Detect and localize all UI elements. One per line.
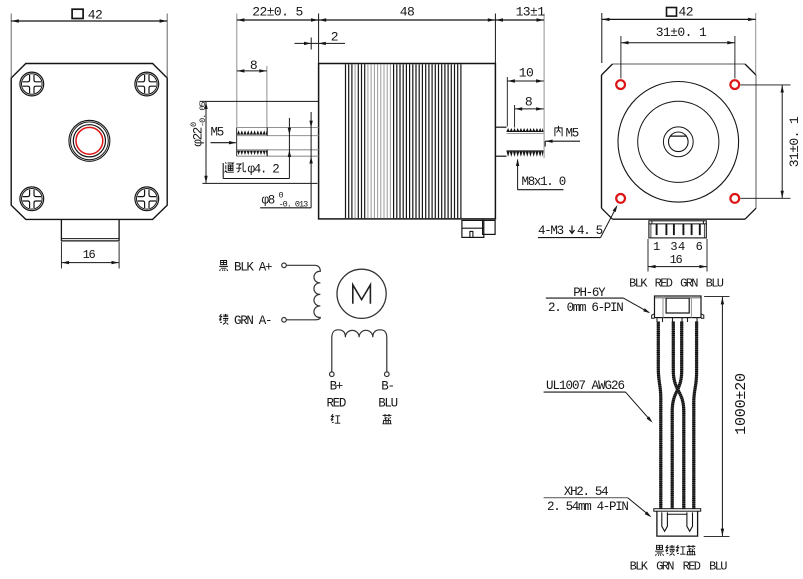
svg-text:BLU: BLU [378, 397, 397, 411]
PH-6Y connector housing [652, 296, 704, 318]
svg-text:BLU: BLU [709, 559, 727, 573]
label 内M5 with leader [545, 126, 580, 147]
motor body (side view) [319, 64, 496, 219]
dimension φ22 with tolerance [189, 101, 319, 183]
front shaft (side view) [237, 128, 319, 157]
M3 tapped hole top-left [616, 80, 625, 89]
svg-text:GRN A-: GRN A- [234, 314, 271, 328]
phase A wire and coil [286, 265, 320, 320]
svg-text:16: 16 [83, 248, 96, 262]
wire color labels (top) [629, 277, 724, 291]
dimension 48 [319, 4, 496, 63]
svg-text:10: 10 [519, 65, 533, 80]
svg-text:BLK: BLK [629, 277, 648, 291]
dimension 22±0.5 [237, 4, 319, 127]
svg-text:2. 54mm 4-PIN: 2. 54mm 4-PIN [547, 500, 628, 514]
label 通孔φ4.2 with leader [223, 118, 291, 179]
svg-text:RED: RED [326, 397, 345, 411]
phase B coil and wires [332, 330, 387, 372]
label BLK GRN RED BLU (bottom) [630, 559, 728, 573]
svg-text:RED: RED [655, 277, 673, 291]
M3 tapped hole bottom-right [730, 194, 739, 203]
screw hole bottom-left [20, 187, 44, 211]
svg-text:GRN: GRN [656, 559, 674, 573]
dimension square-42 (front view) [11, 7, 167, 77]
dimension 10 (rear shaft) [507, 65, 543, 126]
dimension 8 (front shaft thread) [237, 58, 267, 127]
motor circle M [337, 269, 386, 318]
rear view circles [618, 82, 739, 203]
svg-text:4-M3: 4-M3 [538, 224, 564, 238]
dimension 16 (rear view) [648, 239, 707, 272]
screw hole top-right [135, 72, 159, 96]
label XH2.54 [544, 485, 652, 517]
label M8x1.0 with leader [516, 159, 566, 190]
svg-text:BLK: BLK [630, 559, 649, 573]
dimension 2 (pilot depth) [295, 29, 346, 49]
svg-text:B+: B+ [330, 379, 343, 393]
rear view body outline [602, 64, 757, 219]
svg-text:2: 2 [331, 29, 338, 44]
label 黑 BLK A+ [219, 260, 272, 274]
label PH-6Y [546, 286, 651, 313]
label 绿 GRN A- [220, 314, 272, 328]
svg-text:BLU: BLU [706, 277, 724, 291]
label M5 [211, 125, 237, 144]
dimension 31±0.1 horizontal [621, 25, 735, 79]
svg-text:13±1: 13±1 [516, 4, 546, 19]
svg-text:M8x1. 0: M8x1. 0 [522, 175, 566, 189]
svg-text:BLK A+: BLK A+ [234, 260, 272, 274]
screw hole bottom-right [135, 187, 159, 211]
label B- BLU 蓝 [378, 379, 397, 424]
svg-text:31±0. 1: 31±0. 1 [656, 25, 707, 40]
terminal A- [282, 318, 287, 323]
terminal B- [385, 372, 390, 377]
screw hole top-left [20, 72, 44, 96]
stator laminations hatch [346, 64, 461, 218]
XH2.54 connector [654, 509, 701, 536]
svg-text:φ4. 2: φ4. 2 [248, 163, 280, 177]
wire 4 (BLU) [694, 322, 697, 509]
svg-text:M5: M5 [211, 125, 224, 139]
dimension 16 (front view) [61, 242, 119, 269]
rear shaft (side view) [495, 127, 543, 157]
dimension 31±0.1 vertical [741, 85, 803, 198]
M3 tapped hole bottom-left [616, 194, 625, 203]
svg-text:XH2. 54: XH2. 54 [564, 485, 608, 499]
front shaft circles [69, 120, 110, 161]
svg-text:42: 42 [679, 5, 693, 20]
wire 3 (GRN, crosses) [672, 322, 682, 509]
svg-text:16: 16 [670, 253, 683, 267]
svg-text:8: 8 [250, 58, 257, 73]
svg-text:φ22: φ22 [192, 127, 206, 146]
svg-text:-0. 05: -0. 05 [198, 101, 208, 127]
wire 1 (BLK) [658, 322, 661, 509]
label B+ RED 红 [326, 379, 345, 423]
svg-text:8: 8 [525, 95, 532, 110]
label UL1007 AWG26 [544, 379, 653, 423]
terminal box (side view bottom) [462, 220, 495, 237]
svg-text:31±0. 1: 31±0. 1 [787, 116, 802, 167]
svg-text:48: 48 [400, 4, 414, 19]
svg-text:1000±20: 1000±20 [733, 373, 750, 435]
svg-text:GRN: GRN [680, 277, 698, 291]
front view motor body outline [11, 64, 167, 220]
svg-text:φ8: φ8 [262, 194, 275, 208]
mount tab (front view bottom) [61, 219, 119, 241]
label 黑绿红蓝 [655, 545, 696, 556]
svg-text:RED: RED [683, 559, 701, 573]
M3 tapped hole top-right [730, 80, 739, 89]
svg-text:B-: B- [381, 379, 393, 393]
dimension 1000±20 [704, 297, 750, 537]
svg-text:M5: M5 [566, 126, 579, 140]
dimension square-42 (rear view) [602, 5, 756, 74]
svg-text:UL1007 AWG26: UL1007 AWG26 [546, 379, 625, 393]
svg-text:4. 5: 4. 5 [577, 224, 603, 238]
label φ8 -0.013 with leader [260, 112, 313, 210]
dimension 8 (rear shaft thread) [515, 95, 544, 128]
pin numbers 1 3 4 6 [653, 240, 703, 254]
dimension 13±1 [495, 4, 545, 158]
terminal B+ [330, 372, 335, 377]
svg-text:22±0. 5: 22±0. 5 [252, 4, 302, 19]
terminal A+ [282, 263, 287, 268]
svg-text:42: 42 [88, 7, 102, 22]
wire 2 (RED, crosses) [673, 322, 684, 509]
pin header (rear view) [649, 221, 706, 238]
svg-text:2. 0mm 6-PIN: 2. 0mm 6-PIN [548, 301, 623, 315]
label 4-M3 depth 4.5 with leader [538, 205, 618, 238]
PH connector pins [657, 318, 697, 322]
